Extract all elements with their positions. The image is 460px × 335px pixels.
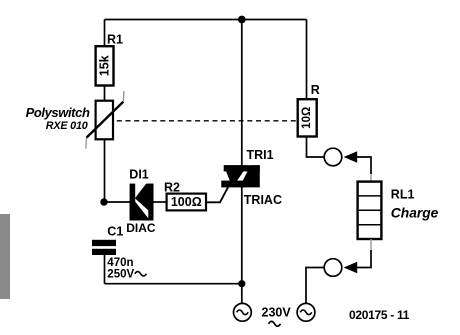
wire right rail	[306, 20, 308, 100]
wire diac to R2	[152, 201, 166, 203]
svg-text:R2: R2	[164, 180, 180, 194]
svg-text:R1: R1	[107, 33, 123, 47]
wire gray stub to RL1 top	[370, 174, 372, 182]
node A junction	[100, 198, 107, 205]
resistor R	[298, 83, 320, 137]
dashed link line	[117, 120, 298, 122]
svg-text:DIAC: DIAC	[126, 221, 156, 235]
triac TRI1	[221, 148, 282, 207]
svg-text:020175 - 11: 020175 - 11	[349, 308, 410, 322]
wire left rail top	[104, 20, 106, 47]
resistor R1	[96, 33, 123, 86]
node top junction	[238, 16, 246, 24]
relay RL1	[358, 182, 439, 239]
svg-text:DI1: DI1	[129, 167, 149, 181]
connector circle B	[324, 259, 342, 277]
wire polyswitch to node A	[104, 140, 106, 203]
svg-text:250V: 250V	[107, 269, 134, 281]
connector circle A	[324, 148, 342, 166]
wire main vertical lower	[241, 181, 243, 303]
svg-text:230V: 230V	[262, 306, 292, 320]
svg-text:RXE 010: RXE 010	[46, 120, 88, 132]
diac DI1	[126, 167, 156, 235]
svg-text:TRIAC: TRIAC	[244, 193, 282, 207]
svg-text:Charge: Charge	[391, 205, 439, 220]
wire gray stub RL1 bottom	[370, 239, 372, 250]
wire arrow A to RL1	[357, 157, 372, 174]
svg-text:Polyswitch: Polyswitch	[26, 105, 90, 120]
source circle left 230V	[234, 303, 252, 321]
svg-text:470n: 470n	[107, 257, 133, 269]
wire R2 to triac gate	[206, 187, 228, 202]
wire main vertical upper	[241, 20, 243, 172]
wire RL1 to arrow B	[357, 250, 371, 268]
wire node A to diac	[105, 201, 131, 203]
wire R to connector A	[307, 137, 325, 158]
svg-text:C1: C1	[107, 225, 123, 239]
svg-text:100Ω: 100Ω	[171, 195, 202, 209]
node bottom junction	[238, 280, 245, 287]
gray sidebar	[0, 214, 10, 299]
wire cap to bottom rail	[104, 255, 106, 284]
wire top rail	[105, 19, 307, 21]
svg-text:R: R	[311, 83, 320, 97]
capacitor C1	[92, 225, 146, 281]
label 230V	[262, 306, 292, 327]
source circle right 230V	[297, 303, 315, 321]
wire R1 to polyswitch	[104, 86, 106, 101]
svg-text:15k: 15k	[98, 55, 112, 76]
wire bottom rail	[105, 283, 242, 285]
resistor R2	[164, 180, 206, 210]
svg-text:RL1: RL1	[391, 187, 415, 201]
svg-text:TRI1: TRI1	[247, 148, 274, 162]
svg-text:10Ω: 10Ω	[301, 107, 313, 129]
polyswitch RXE 010	[26, 91, 124, 149]
wire connector B to bottom source	[306, 268, 324, 304]
arrow A	[344, 151, 358, 163]
arrow B	[344, 262, 358, 274]
